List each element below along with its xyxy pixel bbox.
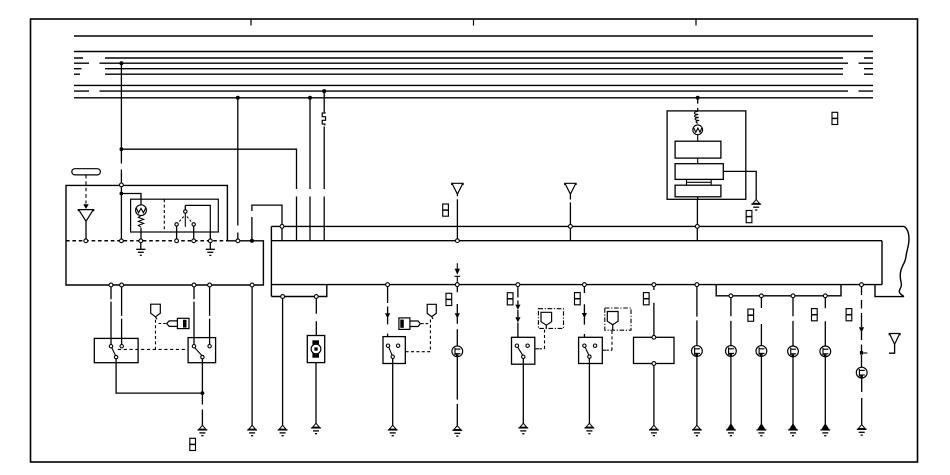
domino mark left of wire 457 xyxy=(446,293,452,305)
door switch D box xyxy=(512,337,535,364)
bulb at 731 xyxy=(726,346,737,357)
wire bulb 697 to ground xyxy=(696,356,698,426)
wire contact right to connector xyxy=(193,226,195,239)
illumination bulb xyxy=(136,205,147,216)
domino mark near relay ground xyxy=(746,211,752,223)
switch A contact right xyxy=(120,345,123,348)
bulb at 761 xyxy=(756,346,767,357)
circuit breaker symbol xyxy=(322,112,325,125)
pin on left box top edge xyxy=(120,183,124,187)
bus wire B xyxy=(74,51,873,53)
switch lever linkage dashes xyxy=(178,217,192,223)
wire washer motor to ground xyxy=(315,363,317,424)
stub x282 to inner line xyxy=(281,228,283,240)
bus wire I xyxy=(74,97,873,99)
top border section tick 2 xyxy=(473,19,475,26)
switch C wire to ground xyxy=(392,359,394,426)
wire inside left box from top pin xyxy=(120,187,122,239)
bulb at 793 xyxy=(788,346,799,357)
ECU bottom edge xyxy=(271,284,882,286)
connector dashed line inside left assembly xyxy=(66,240,227,242)
switch C lever xyxy=(389,347,392,355)
linkage switch E to flag box 2 xyxy=(602,349,606,351)
internal ground 1 stem xyxy=(140,243,142,249)
ECU left connector tab xyxy=(271,285,326,297)
relay block 3 xyxy=(675,185,721,197)
elbow wire from step junction to ECU pin xyxy=(252,205,282,241)
relay bottom wire to ECU xyxy=(696,197,698,225)
switch A contact left xyxy=(109,345,112,348)
ground below switch C xyxy=(388,425,398,435)
ground below switch E xyxy=(585,423,595,433)
flow arrow on wire 861 xyxy=(859,327,864,332)
relay ground xyxy=(751,200,761,210)
junction dot on bus I at 310 xyxy=(308,96,312,100)
switch E contact left xyxy=(583,344,586,347)
wire from resistor to connector pin xyxy=(140,228,142,239)
ECU main box top edge xyxy=(271,225,904,227)
ECU left edge xyxy=(270,226,272,296)
washer switch B box xyxy=(188,338,216,363)
domino mark left of wire 518 xyxy=(507,293,513,305)
internal ground 2 stem xyxy=(209,243,211,249)
bus wire G xyxy=(74,84,873,86)
page arrow triangle 1 xyxy=(452,183,463,194)
domino mark left of wire 654 xyxy=(643,293,649,305)
junction dot at elbow tie xyxy=(201,391,205,395)
wire ECU pin 387 to wiper motor switch xyxy=(387,287,389,337)
bus wire F xyxy=(74,73,873,75)
stem elbow from triangle 3 xyxy=(889,344,895,353)
wire ECU pin 518 to door switch D xyxy=(517,287,519,338)
resistor block box xyxy=(634,337,675,363)
connector flag 2 xyxy=(427,304,436,319)
ECU right connector tab xyxy=(875,285,904,297)
ground at wire 252 xyxy=(247,425,257,435)
flow arrow on wire 457 xyxy=(455,313,460,318)
open triangle connector symbol xyxy=(78,210,93,222)
dashed link key 2 to flag 2 line xyxy=(421,323,430,325)
ground below 697 xyxy=(692,425,702,435)
top border section tick 3 xyxy=(695,19,697,26)
domino mark bottom left xyxy=(190,438,196,450)
wire tab pin 793 to bulb xyxy=(792,298,794,346)
pin ECU top edge x282 xyxy=(280,225,284,229)
wire from circuit breaker down to ECU xyxy=(323,127,325,241)
connector flag 1 xyxy=(151,304,161,319)
stub circle to block 1 xyxy=(697,135,699,142)
dashed drop from flag 2 to switch C xyxy=(405,320,430,352)
stub x697 to inner line xyxy=(696,228,698,240)
wire left tab pin 282 to ground xyxy=(282,298,284,426)
wire bulb 761 to ground xyxy=(760,356,762,426)
wire from bus H to circuit breaker xyxy=(323,91,325,112)
dashed wire from pill xyxy=(85,175,87,204)
ground below 457 xyxy=(452,426,462,436)
junction dot on bus I at 237.8 xyxy=(236,96,240,100)
switch B contact left xyxy=(192,345,195,348)
pin ECU top edge x697 xyxy=(695,225,699,229)
door switch E box xyxy=(579,337,603,363)
junction dot to bulb branch xyxy=(120,192,124,196)
wire ECU pin 457 to interior light xyxy=(456,287,458,346)
pins on left box bottom edge xyxy=(109,283,113,287)
wire pin to washer switch B right contact xyxy=(209,287,211,345)
washer motor symbol xyxy=(311,340,321,357)
wire from bus D down to left box xyxy=(120,63,122,183)
wire branch to ECU pin xyxy=(121,149,296,241)
junction dot on bus D xyxy=(119,61,123,65)
switch E lever xyxy=(585,347,589,355)
flow arrow on wire 387 xyxy=(385,313,390,318)
domino mark top right xyxy=(832,112,838,124)
switch A lever xyxy=(112,348,116,356)
wire from bus I down to relay box xyxy=(697,98,699,111)
wiper switch A box xyxy=(94,338,138,362)
pill lamp symbol xyxy=(72,169,101,175)
pins on ECU bottom edge xyxy=(386,283,390,287)
stub block1 to block2 xyxy=(697,158,699,164)
filled ground below 793 xyxy=(788,424,798,436)
stem from triangle 2 xyxy=(569,194,571,224)
ECU inner connector line xyxy=(271,240,882,242)
relay block 1 xyxy=(675,141,721,158)
arrowhead into triangle xyxy=(83,204,88,209)
wire from bus I down to ECU xyxy=(309,98,311,241)
bus wire A xyxy=(74,35,873,37)
bulb at 825 xyxy=(820,346,831,357)
switch common stub xyxy=(184,205,186,209)
relay coil squiggle xyxy=(694,112,699,124)
wire bulb 861 to ground xyxy=(861,378,863,425)
bus wire E xyxy=(74,68,873,70)
pin ECU top edge x570 xyxy=(569,225,573,229)
switch C common xyxy=(391,355,394,358)
wire sub-box edge to connector xyxy=(209,232,211,239)
wire contact left to connector xyxy=(176,226,178,239)
junction dot branch left box feed xyxy=(120,147,124,151)
splice dot with stub on wire 861 xyxy=(860,351,863,355)
wire left tab pin 316 to washer motor xyxy=(315,298,317,335)
relay block 2 xyxy=(675,164,723,180)
stub x570 to inner line xyxy=(569,228,571,240)
wire bulb 731 to ground xyxy=(730,356,732,426)
ground below 861 xyxy=(857,425,867,435)
ECU inner right edge xyxy=(881,241,883,285)
wire ECU pin 584 to door switch E xyxy=(583,287,585,338)
wire pin to wiper switch A right contact xyxy=(121,287,123,345)
switch B common wire to ground xyxy=(201,359,203,426)
connector flag in box 1 xyxy=(541,312,552,328)
switch D wire to ground xyxy=(522,359,524,424)
domino mark at 748 xyxy=(748,309,754,321)
wire pin to wiper switch A left contact xyxy=(110,287,112,345)
wire ECU pin 697 to bulb xyxy=(696,287,698,346)
wire from bus I down to left box connector xyxy=(237,98,239,239)
domino mark at 811 xyxy=(812,309,818,321)
internal diode at x457 xyxy=(456,263,458,268)
switch lever xyxy=(184,213,186,227)
switch B common xyxy=(201,355,204,358)
dashed link key 1 to flag line xyxy=(157,323,166,325)
internal ground 1 xyxy=(136,249,145,255)
switch E contact right xyxy=(593,344,596,347)
ground below switch D xyxy=(518,423,528,433)
ground below washer motor xyxy=(311,423,321,433)
wire bulb 825 to ground xyxy=(824,357,826,426)
flow arrow on wire 584 xyxy=(582,313,587,318)
relay bulb circle xyxy=(693,125,703,135)
bus wire H xyxy=(74,90,873,92)
wire tab pin 825 to bulb xyxy=(824,298,826,346)
switch A common wire with elbow xyxy=(116,359,202,393)
wire pin straight to ground xyxy=(251,287,253,426)
pin on inner line x457 xyxy=(456,239,460,243)
switch C contact right xyxy=(396,344,399,347)
linkage switch D to flag box 1 xyxy=(535,348,539,350)
key symbol 2 (facing right) xyxy=(399,318,420,330)
page arrow triangle 3 xyxy=(889,334,900,345)
filled ground below 825 xyxy=(820,424,830,436)
switch E wire to ground xyxy=(588,358,590,424)
switch D contact left xyxy=(515,344,518,347)
wire tab pin 761 to bulb xyxy=(760,298,762,346)
wire tab pin 731 to bulb xyxy=(730,298,732,346)
junction dot on bus I at 697.7 xyxy=(696,96,700,100)
wire ECU pin 861 dashed segments xyxy=(861,287,863,368)
linkage dashed wire A to B xyxy=(118,348,188,350)
bulb at 697 xyxy=(692,346,703,357)
ground below 282 xyxy=(278,425,288,435)
connector pins on dashed line xyxy=(84,239,88,243)
switch E common xyxy=(588,355,591,358)
branch wire to bulb xyxy=(121,194,141,205)
flow arrow 2 on wire 518 xyxy=(515,317,520,322)
dashed divider in sub-box xyxy=(163,199,165,232)
stem from triangle 1 xyxy=(456,194,458,239)
washer motor box xyxy=(307,336,324,363)
pin on resistor block bottom xyxy=(652,362,656,366)
filled ground below 731 xyxy=(726,424,736,436)
bulb sub-box xyxy=(131,199,219,232)
switch D common xyxy=(522,355,525,358)
bus wire C xyxy=(74,57,873,59)
wire pin to washer switch B left contact xyxy=(193,287,195,345)
ECU torn wavy right edge xyxy=(899,226,909,296)
wire triangle to connector pin xyxy=(85,221,87,239)
switch common contact xyxy=(184,210,187,213)
dash-dot flag box 2 xyxy=(605,308,631,330)
pins on middle tab bottom xyxy=(729,294,733,298)
pins on left tab bottom xyxy=(281,295,285,299)
switch B contact right xyxy=(208,345,211,348)
domino mark at 846 xyxy=(846,309,852,321)
ground below switch B xyxy=(198,425,208,435)
wire ECU pin 654 to resistor block xyxy=(653,287,655,336)
junction dot on bus H at 324.2 xyxy=(322,89,326,93)
switch B lever xyxy=(195,348,202,356)
pin on resistor block top xyxy=(652,335,656,339)
bulb at 861 xyxy=(856,367,867,378)
relay box outline xyxy=(667,111,746,199)
combination meter outline (left assembly) xyxy=(66,185,263,285)
dash-dot flag box 1 xyxy=(538,309,563,329)
switch C contact left xyxy=(386,344,389,347)
junction dot on box step edge xyxy=(250,239,254,243)
filled ground below 761 xyxy=(757,424,767,436)
switch contact right xyxy=(192,223,195,226)
domino mark near triangle 1 xyxy=(443,204,449,216)
relay output wire to ground xyxy=(723,171,756,200)
connector flag in box 2 xyxy=(607,312,618,330)
dimmer switch sub-box xyxy=(185,205,210,232)
ground below resistor block xyxy=(649,425,659,435)
key symbol 1 (facing left) xyxy=(167,318,189,328)
switch D contact right xyxy=(526,344,529,347)
block2-block3 link stubs xyxy=(687,179,712,185)
page arrow triangle 2 xyxy=(565,183,576,194)
interior light bulb xyxy=(452,346,463,357)
switch D lever xyxy=(518,347,523,355)
switch A common xyxy=(114,355,117,358)
wiper motor switch C box xyxy=(383,337,405,364)
flow arrow 1 on wire 518 xyxy=(515,305,520,310)
top border section tick 1 xyxy=(250,19,252,26)
switch contact left xyxy=(175,223,178,226)
resistor (rheostat) below bulb xyxy=(138,216,143,228)
wire bulb 457 to ground xyxy=(456,357,458,427)
bus wire D xyxy=(74,62,873,64)
wire bulb 793 to ground xyxy=(792,357,794,426)
ECU middle connector tab xyxy=(716,285,841,296)
internal ground 2 xyxy=(206,249,215,255)
domino mark left of wire 584 xyxy=(575,293,581,305)
dashed drop from flag 1 xyxy=(155,320,157,350)
wire resistor block to ground xyxy=(653,365,655,426)
